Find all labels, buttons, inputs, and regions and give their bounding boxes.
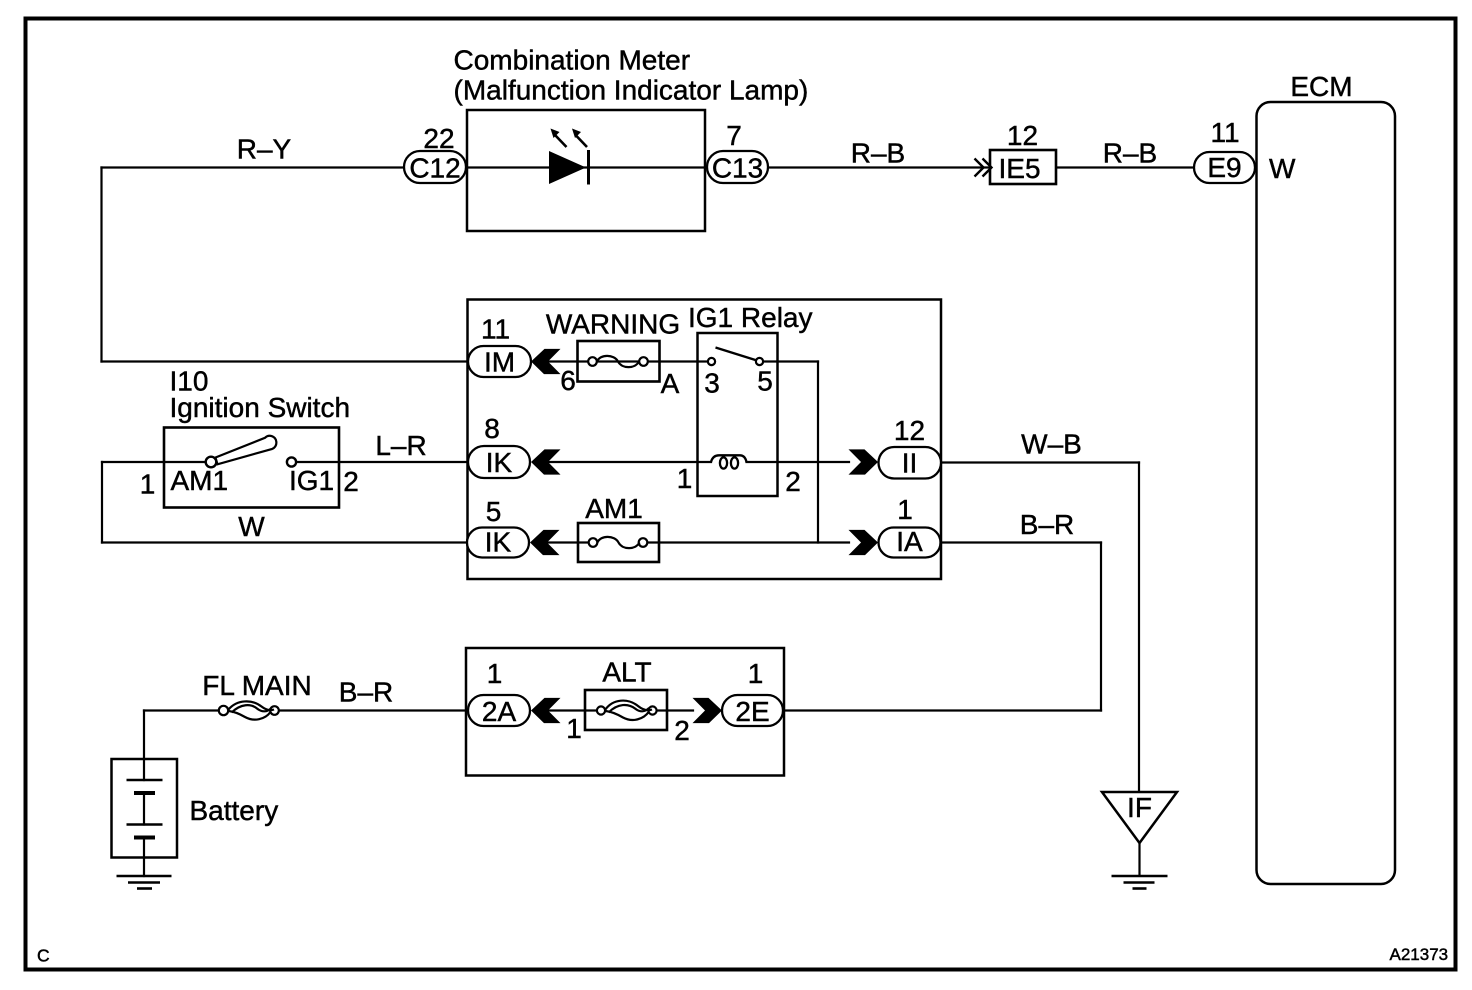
- svg-text:R–B: R–B: [851, 138, 905, 169]
- svg-text:IG1 Relay: IG1 Relay: [688, 302, 813, 333]
- wire relay contact 5 out: [763, 360, 818, 362]
- svg-text:IA: IA: [896, 526, 923, 557]
- arrow into IM: [531, 349, 561, 374]
- svg-text:IG1: IG1: [289, 465, 334, 496]
- wire C13 to IE5 (R-B): [768, 166, 990, 168]
- IG1 relay contact 5: [756, 358, 763, 365]
- svg-text:(Malfunction Indicator Lamp): (Malfunction Indicator Lamp): [454, 75, 809, 106]
- battery ground: [117, 876, 172, 889]
- svg-text:2A: 2A: [482, 696, 517, 727]
- svg-text:2: 2: [785, 466, 801, 497]
- WARNING fuse box: [578, 341, 660, 382]
- svg-text:Battery: Battery: [190, 795, 279, 826]
- junction IK pin 8: [468, 446, 530, 478]
- wire 2A arrow to ALT fuse: [546, 709, 596, 711]
- wire inside combination meter: [467, 166, 705, 168]
- svg-text:A: A: [661, 368, 680, 399]
- wire B-R vertical down to bottom row: [1100, 543, 1102, 711]
- wire IA to B-R vertical: [941, 541, 1101, 543]
- svg-text:ECM: ECM: [1290, 71, 1352, 102]
- junction 2A pin 1: [468, 695, 530, 726]
- svg-text:12: 12: [894, 415, 925, 446]
- svg-text:12: 12: [1007, 120, 1038, 151]
- svg-text:W: W: [238, 511, 265, 542]
- svg-text:2: 2: [674, 715, 690, 746]
- wire vertical from contact 5 down to IA row: [817, 362, 819, 543]
- wire IM arrow to relay contact 3: [547, 360, 712, 362]
- connector C12: [404, 151, 466, 183]
- svg-text:AM1: AM1: [171, 465, 229, 496]
- connector C13: [707, 151, 768, 183]
- wire battery to ground: [143, 838, 145, 877]
- svg-text:B–R: B–R: [339, 677, 393, 708]
- svg-text:II: II: [902, 448, 918, 479]
- svg-text:IK: IK: [485, 527, 512, 558]
- svg-text:1: 1: [748, 658, 764, 689]
- AM1 fuse symbol: [589, 537, 648, 548]
- wire IK8 arrow to relay coil: [547, 461, 711, 463]
- svg-text:1: 1: [677, 463, 693, 494]
- wire to IM connector: [102, 360, 469, 362]
- junction 2E pin 1: [722, 695, 783, 726]
- svg-text:C12: C12: [409, 153, 460, 184]
- wire battery drop: [143, 711, 145, 781]
- wire R-Y vertical drop to IM row: [100, 168, 102, 362]
- IG1 relay contact 3: [708, 358, 715, 365]
- svg-text:11: 11: [1210, 117, 1239, 148]
- wire ALT fuse to 2E arrow: [657, 709, 693, 711]
- svg-text:3: 3: [704, 368, 720, 399]
- LED D1 in combination meter: [549, 129, 589, 185]
- svg-text:W: W: [1269, 153, 1296, 184]
- junction IM: [468, 346, 531, 377]
- ALT fuse box: [585, 690, 667, 730]
- IG1 relay box: [698, 333, 778, 496]
- ground IF triangle: [1102, 792, 1177, 843]
- junction IA pin 1: [879, 528, 941, 558]
- svg-text:E9: E9: [1207, 152, 1241, 183]
- svg-text:Combination Meter: Combination Meter: [454, 45, 691, 76]
- arrow into 2A: [531, 698, 561, 723]
- AM1 fuse box: [578, 523, 659, 562]
- svg-text:R–Y: R–Y: [237, 134, 292, 165]
- I10 ignition switch box: [164, 428, 339, 508]
- svg-text:FL MAIN: FL MAIN: [202, 670, 311, 701]
- svg-text:C: C: [37, 946, 50, 966]
- IE5 junction connector box: [990, 150, 1056, 184]
- arrow into IK5: [530, 530, 560, 555]
- ignition switch lever: [216, 436, 277, 464]
- svg-text:B–R: B–R: [1020, 509, 1074, 540]
- wire relay coil to II arrow: [747, 461, 850, 463]
- svg-text:1: 1: [897, 494, 913, 525]
- arrow into IK8: [531, 449, 561, 474]
- svg-text:1: 1: [140, 469, 156, 500]
- battery box: [112, 759, 178, 858]
- svg-text:R–B: R–B: [1103, 138, 1157, 169]
- IF ground bars: [1112, 876, 1168, 889]
- arrow into 2E: [693, 698, 723, 723]
- wire IK5 arrow to AM1 fuse: [546, 541, 588, 543]
- svg-text:22: 22: [423, 123, 454, 154]
- svg-text:C13: C13: [712, 153, 763, 184]
- arrow into II: [849, 449, 879, 474]
- battery plates: [127, 780, 163, 838]
- connector E9: [1194, 152, 1255, 183]
- svg-text:IF: IF: [1127, 792, 1152, 823]
- svg-text:A21373: A21373: [1390, 945, 1449, 964]
- IG1 relay coil: [711, 455, 747, 468]
- wire II to W-B vertical: [941, 461, 1139, 463]
- ECM box: [1257, 102, 1396, 884]
- IG1 relay blade: [716, 348, 758, 361]
- junction II pin 12: [879, 447, 942, 479]
- middle junction block box: [468, 300, 942, 580]
- svg-text:1: 1: [566, 713, 582, 744]
- svg-text:1: 1: [487, 658, 503, 689]
- svg-text:2E: 2E: [735, 696, 769, 727]
- junction IK pin 5: [467, 528, 529, 558]
- junction chevron into IE5: [975, 159, 992, 177]
- wire IF triangle to ground: [1138, 843, 1140, 876]
- wire AM1 fuse to IA arrow: [648, 541, 849, 543]
- svg-text:AM1: AM1: [585, 493, 643, 524]
- svg-text:L–R: L–R: [375, 430, 426, 461]
- wire ignition pin1 stub left: [102, 461, 206, 463]
- combination meter box: [467, 110, 705, 231]
- wire 2E to B-R vertical junction: [783, 709, 1101, 711]
- svg-text:IM: IM: [484, 347, 515, 378]
- svg-text:8: 8: [484, 413, 500, 444]
- arrow into IA: [849, 530, 879, 555]
- wire IE5 to E9 (R-B): [1056, 166, 1194, 168]
- WARNING fuse symbol: [588, 356, 648, 367]
- wire W row to IK5: [102, 541, 467, 543]
- svg-text:6: 6: [560, 365, 576, 396]
- svg-text:ALT: ALT: [602, 657, 651, 688]
- wire IG1 contact to IK8 (L-R): [297, 461, 468, 463]
- svg-text:2: 2: [343, 466, 359, 497]
- svg-text:5: 5: [486, 496, 502, 527]
- ignition switch contact IG1: [287, 457, 296, 466]
- FL MAIN fusible link symbol: [219, 701, 279, 719]
- wire battery inner cell link: [143, 793, 145, 825]
- ALT fusible link symbol: [597, 701, 657, 720]
- ALT block box: [466, 648, 784, 776]
- wire R-Y horizontal C12 feed: [102, 166, 405, 168]
- svg-text:IK: IK: [486, 447, 513, 478]
- svg-text:11: 11: [481, 314, 510, 345]
- svg-text:W–B: W–B: [1021, 429, 1082, 460]
- svg-text:7: 7: [726, 120, 742, 151]
- ignition switch contact AM1: [206, 457, 217, 468]
- wire W-B vertical down to IF ground: [1138, 463, 1140, 792]
- wire vertical pin1 down to W row: [101, 462, 103, 543]
- svg-text:5: 5: [757, 366, 773, 397]
- svg-text:IE5: IE5: [998, 153, 1040, 184]
- svg-text:Ignition Switch: Ignition Switch: [170, 392, 351, 423]
- svg-text:WARNING: WARNING: [546, 309, 680, 340]
- wire battery to FL MAIN to 2A: [144, 709, 219, 711]
